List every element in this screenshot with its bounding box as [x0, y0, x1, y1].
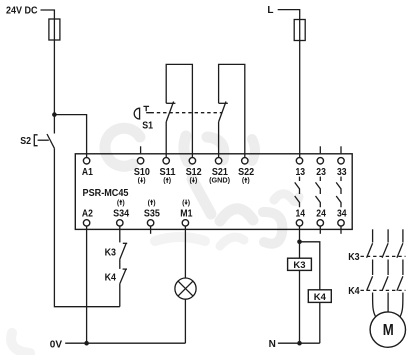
svg-text:N: N — [269, 339, 276, 350]
svg-text:K3: K3 — [105, 248, 117, 259]
stub below S35 — [150, 226, 152, 234]
wire fuse F2 to terminal 13 — [299, 41, 301, 158]
lamp H1 — [175, 278, 196, 299]
wire S2 down to feedback loop — [54, 148, 119, 306]
svg-text:(GND): (GND) — [209, 178, 230, 185]
svg-text:PSR-MC45: PSR-MC45 — [83, 188, 129, 199]
terminal 23 — [317, 158, 323, 164]
terminal 14 — [296, 220, 302, 226]
junction J1 — [52, 112, 57, 117]
svg-text:S21: S21 — [212, 167, 228, 178]
svg-text:23: 23 — [316, 167, 326, 178]
wire 24V feed to fuse F1 — [41, 10, 55, 19]
junction J2 on 14 wire — [297, 240, 302, 245]
terminal S22 — [242, 158, 248, 164]
terminal 13 — [296, 158, 302, 164]
contactor K3/K4 power contacts pole 3 — [397, 229, 403, 316]
wire K4 coil to N rail — [319, 302, 321, 343]
junction J4 on 0V rail — [84, 341, 89, 346]
contactor coil K4 — [308, 290, 331, 303]
junction J3 on N rail — [297, 341, 302, 346]
K4 power contact linkage (dashed) — [361, 289, 406, 291]
svg-text:M: M — [383, 322, 394, 339]
svg-text:A2: A2 — [82, 208, 93, 219]
svg-text:S12: S12 — [186, 167, 202, 178]
svg-text:14: 14 — [296, 208, 306, 219]
wire between feedback contacts — [119, 259, 121, 269]
terminal S21 — [215, 158, 221, 164]
terminal A1 — [83, 158, 89, 164]
contactor K3/K4 power contacts pole 1 — [367, 229, 376, 316]
stub below 34 — [340, 226, 342, 234]
svg-text:K4: K4 — [348, 286, 360, 297]
K3 power contact linkage (dashed) — [361, 255, 406, 257]
svg-text:): ) — [188, 200, 190, 207]
pin sublabel S11 up-arrow — [163, 177, 171, 184]
contact 13-14 inside relay — [295, 177, 300, 208]
S1 emergency-stop actuator — [134, 106, 150, 119]
switch S2 — [34, 134, 54, 148]
switch S1 contact 2 (NC in S21 leg) — [219, 102, 228, 158]
svg-text:K4: K4 — [314, 292, 327, 303]
svg-text:S34: S34 — [113, 208, 129, 219]
terminal 24 — [317, 220, 323, 226]
terminal 34 — [338, 220, 344, 226]
stub below 24 — [319, 226, 321, 234]
fuse F1 — [49, 19, 60, 40]
motor M — [370, 312, 405, 347]
contactor K3/K4 power contacts pole 2 — [382, 229, 388, 312]
svg-text:S10: S10 — [134, 167, 150, 178]
pin sublabel S35 up-arrow — [148, 199, 156, 206]
svg-text:): ) — [143, 178, 145, 185]
pin sublabel S34 up-arrow — [117, 199, 125, 206]
wire M1 to lamp — [184, 226, 186, 278]
svg-text:K3: K3 — [293, 260, 305, 271]
contact 23-24 inside relay — [316, 177, 321, 208]
terminal 33 — [338, 158, 344, 164]
svg-text:K3: K3 — [348, 252, 360, 263]
wire branch J2 to K4 coil — [300, 242, 320, 290]
terminal S35 — [147, 220, 153, 226]
fuse F2 — [294, 20, 305, 41]
wire A2 to 0V rail — [86, 226, 88, 343]
wire loop S21-S22 — [219, 64, 245, 157]
terminal S11 — [163, 158, 169, 164]
wire 0V rail — [65, 342, 185, 344]
svg-text:A1: A1 — [82, 167, 93, 178]
svg-text:S35: S35 — [144, 208, 160, 219]
stub above 23 — [319, 146, 321, 153]
svg-text:24V DC: 24V DC — [6, 6, 38, 17]
S1 mechanical linkage (dashed) — [151, 112, 223, 114]
pin sublabel S10 down-arrow — [138, 178, 146, 185]
svg-text:): ) — [169, 178, 171, 185]
svg-text:L: L — [267, 5, 273, 16]
terminal A2 — [83, 220, 89, 226]
contactor coil K3 — [288, 258, 312, 270]
switch S1 contact 1 (NC in S11 leg) — [166, 102, 175, 158]
svg-text:24: 24 — [316, 208, 326, 219]
svg-text:M1: M1 — [180, 208, 193, 219]
pin sublabel M1 down-arrow — [182, 200, 190, 207]
stub above S10 — [140, 146, 142, 153]
wire S34 to K3 feedback contact — [119, 226, 121, 242]
svg-text:34: 34 — [337, 208, 347, 219]
terminal S12 — [189, 158, 195, 164]
svg-text:): ) — [153, 200, 155, 207]
contact K3 feedback (NO) — [120, 243, 127, 259]
wire L to fuse F2 — [278, 10, 300, 20]
contact 33-34 inside relay — [336, 177, 341, 208]
svg-text:33: 33 — [337, 167, 347, 178]
svg-text:): ) — [247, 178, 249, 185]
svg-text:K4: K4 — [105, 273, 117, 284]
svg-text:S1: S1 — [142, 120, 153, 131]
pin sublabel S12 down-arrow — [189, 178, 197, 185]
svg-text:S2: S2 — [20, 136, 31, 147]
wire lamp to 0V rail — [184, 299, 186, 343]
wire fuse F1 to S2 — [53, 40, 55, 134]
pin sublabel S22 up-arrow — [242, 177, 250, 184]
relay PSR-MC45 body — [75, 154, 352, 230]
terminal S34 — [117, 220, 123, 226]
wire J1 to terminal A1 — [54, 115, 86, 158]
contact K4 feedback (NO) — [120, 269, 127, 284]
terminal M1 — [182, 220, 188, 226]
svg-text:): ) — [122, 200, 124, 207]
wire terminal 14 to coils — [299, 226, 301, 343]
svg-text:S11: S11 — [160, 167, 176, 178]
terminal S10 — [137, 158, 143, 164]
svg-text:13: 13 — [296, 167, 306, 178]
stub above 33 — [340, 146, 342, 153]
wire loop S11-S12 — [166, 64, 192, 157]
svg-text:0V: 0V — [50, 339, 63, 350]
svg-text:): ) — [195, 178, 197, 185]
svg-text:S22: S22 — [238, 167, 254, 178]
wire K4 feedback down to bottom rail — [119, 284, 121, 307]
wire N rail — [278, 342, 320, 344]
